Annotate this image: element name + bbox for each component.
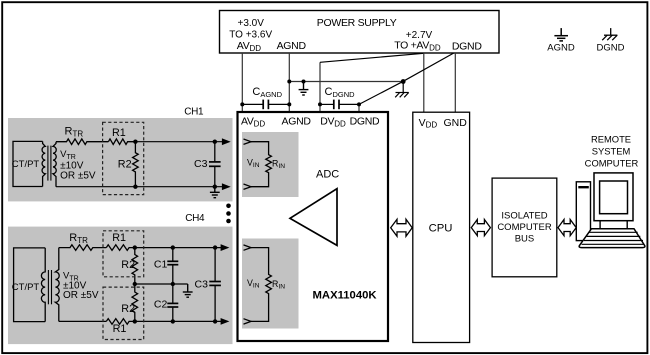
svg-text:AGND: AGND (547, 43, 575, 54)
svg-text:C3: C3 (194, 158, 208, 170)
arrow CH1 top output (222, 139, 229, 145)
transformer T4 core (47, 270, 49, 304)
transformer T1 primary winding (42, 141, 45, 186)
CPU box (413, 112, 470, 342)
ellipsis dot 2 (226, 211, 231, 216)
legend AGND symbol (554, 28, 568, 41)
wire CH4 middle rail (135, 283, 188, 285)
svg-text:ISOLATED: ISOLATED (501, 210, 547, 221)
input block VIN1 (gray) (242, 132, 299, 197)
wire DVDD vertical to ADC (319, 62, 321, 111)
dashed divider network box (CH1) (103, 122, 144, 194)
svg-text:CT/PT: CT/PT (12, 282, 40, 293)
junction R1-R2 top rail (CH4) (133, 245, 137, 249)
resistor R2 top (CH4) vertical (132, 248, 138, 284)
arrow CH1 bottom output (222, 184, 229, 190)
CH1 gray background (8, 118, 233, 201)
junction CAGND-AGND (287, 102, 291, 106)
chevron input 1b (244, 184, 252, 189)
svg-text:R1: R1 (112, 127, 126, 139)
chevron input 1a (244, 139, 252, 144)
svg-text:REMOTE: REMOTE (591, 133, 631, 144)
svg-text:AGND: AGND (282, 116, 312, 128)
dashed divider network box bottom (CH4) (103, 287, 144, 339)
resistor R1 bottom (CH4) (106, 319, 135, 325)
wire GND from power supply to CPU (454, 53, 456, 112)
svg-text:C1: C1 (154, 258, 168, 270)
dashed divider network box top (CH4) (103, 231, 144, 277)
svg-text:TO +3.6V: TO +3.6V (229, 29, 272, 40)
svg-text:CT/PT: CT/PT (12, 159, 40, 170)
svg-text:DGND: DGND (452, 41, 482, 53)
wire star-ground AGND to DGND (289, 81, 403, 83)
op-amp ADC U1 MAX11040K box (238, 112, 389, 341)
svg-text:C3: C3 (195, 279, 209, 291)
junction R2-R2 middle (CH4) (133, 282, 137, 286)
wire CH1 bottom rail (56, 186, 223, 188)
capacitor C3 (CH1) (209, 142, 221, 187)
junction C3 top (CH1) (213, 140, 217, 144)
transformer T4 secondary winding (55, 248, 59, 322)
junction C2 bottom (CH4) (171, 319, 175, 323)
legend DGND symbol (602, 28, 617, 40)
junction R1-R2 bottom rail (CH4) (133, 319, 137, 323)
svg-text:CH1: CH1 (184, 106, 204, 117)
computer monitor screen (600, 181, 628, 214)
svg-text:R1: R1 (113, 323, 127, 335)
junction AGND symbol tap (302, 80, 306, 84)
capacitor CDGND (320, 100, 359, 110)
bus arrow ISO-computer (558, 220, 576, 236)
computer tower slot (578, 186, 589, 188)
input block VIN4 (gray) (242, 239, 299, 329)
wire DGND diagonal from power supply to ADC DGND pin (359, 53, 454, 104)
svg-text:DGND: DGND (597, 43, 625, 54)
wire CH4 top rail left + resistor RTR (59, 245, 107, 251)
ground (CH4 AGND) (183, 284, 193, 297)
chevron input 4a (244, 245, 252, 250)
wire AGND from power supply to ADC (288, 53, 290, 112)
ellipsis dot 1 (channels 2..3) (226, 204, 231, 209)
junction R1-R2 top (CH1) (133, 140, 137, 144)
junction AGND/star line (287, 80, 291, 84)
junction R2 bottom (CH1) (133, 185, 137, 189)
transformer T1 core (47, 146, 49, 181)
svg-text:OR ±5V: OR ±5V (63, 290, 99, 301)
junction C3 top (CH4) (213, 245, 217, 249)
resistor R2 bottom (CH4) vertical (132, 284, 138, 321)
svg-text:POWER SUPPLY: POWER SUPPLY (317, 17, 397, 29)
svg-text:AGND: AGND (277, 40, 307, 52)
resistor R1 (CH1) (108, 139, 135, 145)
computer keyboard (579, 229, 645, 248)
transformer T4 CT/PT box (14, 248, 46, 322)
wire VDD from power supply to CPU (423, 53, 425, 112)
svg-text:R2: R2 (121, 259, 135, 271)
bus arrow ADC-CPU (391, 219, 413, 236)
op-amp triangle (290, 189, 337, 246)
junction CAGND-AVDD (240, 102, 244, 106)
svg-text:COMPUTER: COMPUTER (585, 157, 639, 168)
capacitor C2 (CH4) (167, 284, 178, 321)
svg-text:DGND: DGND (350, 116, 380, 128)
junction star ground point (401, 79, 406, 84)
arrow CH4 bottom output (221, 319, 228, 325)
junction C3 bottom (CH4) (213, 319, 217, 323)
svg-text:OR ±5V: OR ±5V (60, 171, 96, 182)
chevron input 4b (244, 319, 252, 324)
svg-text:+3.0V: +3.0V (237, 18, 264, 29)
svg-text:CPU: CPU (429, 222, 453, 234)
svg-text:ADC: ADC (316, 168, 339, 180)
bus arrow CPU-ISO (471, 220, 490, 236)
svg-text:C2: C2 (154, 298, 168, 310)
computer monitor stand (599, 221, 601, 229)
wire DVDD diagonal to +2.7V supply (320, 53, 424, 62)
wire CH1 top rail right (135, 141, 223, 143)
ground AGND symbol (star point) (299, 82, 309, 96)
capacitor C1 (CH4) (167, 248, 178, 284)
resistor RIN4 with wires (251, 248, 271, 322)
transformer T1 CT/PT box (13, 141, 43, 186)
svg-text:R1: R1 (112, 232, 126, 244)
junction C1-C2 middle (CH4) (171, 282, 175, 286)
resistor RIN1 with wires (251, 142, 271, 187)
wire AVDD from power supply to ADC (241, 53, 243, 112)
wire CH4 bottom rail right (135, 320, 222, 322)
isolated computer bus box (492, 178, 557, 277)
transformer T1 secondary winding (53, 142, 56, 187)
junction C1 top (CH4) (171, 245, 175, 249)
wire CH4 top rail right (135, 247, 222, 249)
computer monitor outer (594, 173, 633, 221)
svg-text:COMPUTER: COMPUTER (497, 222, 552, 233)
wire CH4 bottom rail left (59, 320, 107, 322)
wire DGND pin drop (358, 104, 360, 111)
resistor R1 top (CH4) (106, 245, 135, 251)
svg-text:R2: R2 (121, 303, 135, 315)
svg-text:CH4: CH4 (185, 213, 205, 224)
svg-text:SYSTEM: SYSTEM (592, 145, 631, 156)
wire CH1 top rail left + resistor RTR (56, 139, 108, 145)
ellipsis dot 3 (226, 219, 231, 224)
junction CDGND-DGND (357, 102, 361, 106)
power supply U-PS box (220, 11, 500, 54)
svg-text:R2: R2 (118, 158, 132, 170)
resistor R2 (CH1) vertical (133, 142, 139, 187)
ground DGND symbol (star point) (395, 82, 409, 98)
svg-text:GND: GND (444, 117, 468, 129)
capacitor C3 (CH4) (209, 248, 221, 322)
arrow CH4 top output (221, 245, 228, 251)
transformer T4 primary winding (41, 248, 45, 322)
svg-text:BUS: BUS (515, 234, 535, 245)
ground (CH1 AGND) (210, 187, 220, 198)
CH4 gray background (8, 227, 233, 345)
svg-text:MAX11040K: MAX11040K (313, 290, 378, 302)
computer keyboard key rows (582, 232, 645, 244)
junction CDGND-DVDD (318, 102, 322, 106)
computer tower (576, 182, 590, 241)
capacitor CAGND (242, 100, 289, 110)
junction C3 bottom (CH1) (213, 185, 217, 189)
